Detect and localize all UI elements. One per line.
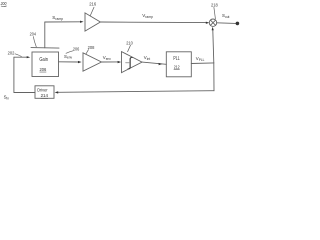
node label V_PLL [196, 56, 205, 62]
driver block 214 [35, 86, 54, 99]
node label S_out [222, 13, 229, 19]
leader 208 [86, 50, 89, 55]
wire amp 208 to integrator [102, 61, 118, 63]
svg-text:202: 202 [8, 50, 15, 55]
svg-text:214: 214 [41, 93, 49, 98]
wire gain to amp 208 [59, 61, 79, 63]
leader 216 [90, 7, 94, 16]
mixer 218 [209, 19, 216, 26]
svg-text:210: 210 [126, 40, 133, 45]
node label S_ramp [52, 15, 63, 21]
label 206 [73, 47, 80, 52]
wire input into gain [14, 56, 28, 58]
wire riser PLL down to feedback [213, 63, 215, 91]
label 208 [88, 45, 95, 50]
leader 204 [33, 37, 36, 47]
svg-text:206: 206 [73, 47, 80, 52]
leader 210 [128, 45, 131, 52]
label 216 [89, 1, 96, 6]
op-amp U1 amplifier 216 [85, 13, 100, 31]
gain block 206 [32, 52, 59, 77]
wire driver output left [14, 92, 35, 94]
riser wire to node 204 [44, 22, 46, 48]
wire mixer to output [217, 22, 236, 25]
wire riser PLL to mixer [213, 30, 214, 63]
PLL block 212 [166, 52, 191, 77]
svg-text:212: 212 [174, 64, 180, 69]
label 218 [211, 2, 218, 7]
node label V_int [144, 55, 150, 61]
svg-text:204: 204 [30, 32, 37, 37]
wire top from riser to amp 216 [45, 21, 80, 23]
label 202 [8, 50, 15, 55]
wire integrator to PLL [142, 62, 166, 64]
svg-text:Gain: Gain [39, 57, 48, 63]
svg-text:218: 218 [211, 2, 218, 7]
svg-text:208: 208 [88, 45, 95, 50]
wire feedback bottom [58, 91, 214, 93]
node output dot [236, 22, 240, 26]
node label S_in [4, 95, 10, 101]
wire amp 216 to mixer [100, 21, 205, 24]
wire PLL output [191, 62, 214, 65]
integrator 210 [122, 52, 143, 73]
svg-text:216: 216 [89, 1, 96, 6]
node label V_ramp [142, 13, 153, 19]
leader 206 [66, 51, 73, 54]
figure label 200 [0, 1, 7, 6]
leader 218 [214, 7, 216, 18]
wire riser left [13, 57, 15, 92]
leader 202 [15, 54, 22, 57]
node label V_env [103, 55, 111, 61]
label 204 [30, 32, 37, 37]
node label S_env [64, 54, 72, 60]
label 210 [126, 40, 133, 45]
svg-text:PLL: PLL [173, 56, 179, 62]
amplifier 208 [83, 53, 102, 71]
node 204 wire [31, 47, 59, 50]
svg-text:200: 200 [0, 1, 7, 6]
svg-text:206: 206 [40, 67, 47, 72]
